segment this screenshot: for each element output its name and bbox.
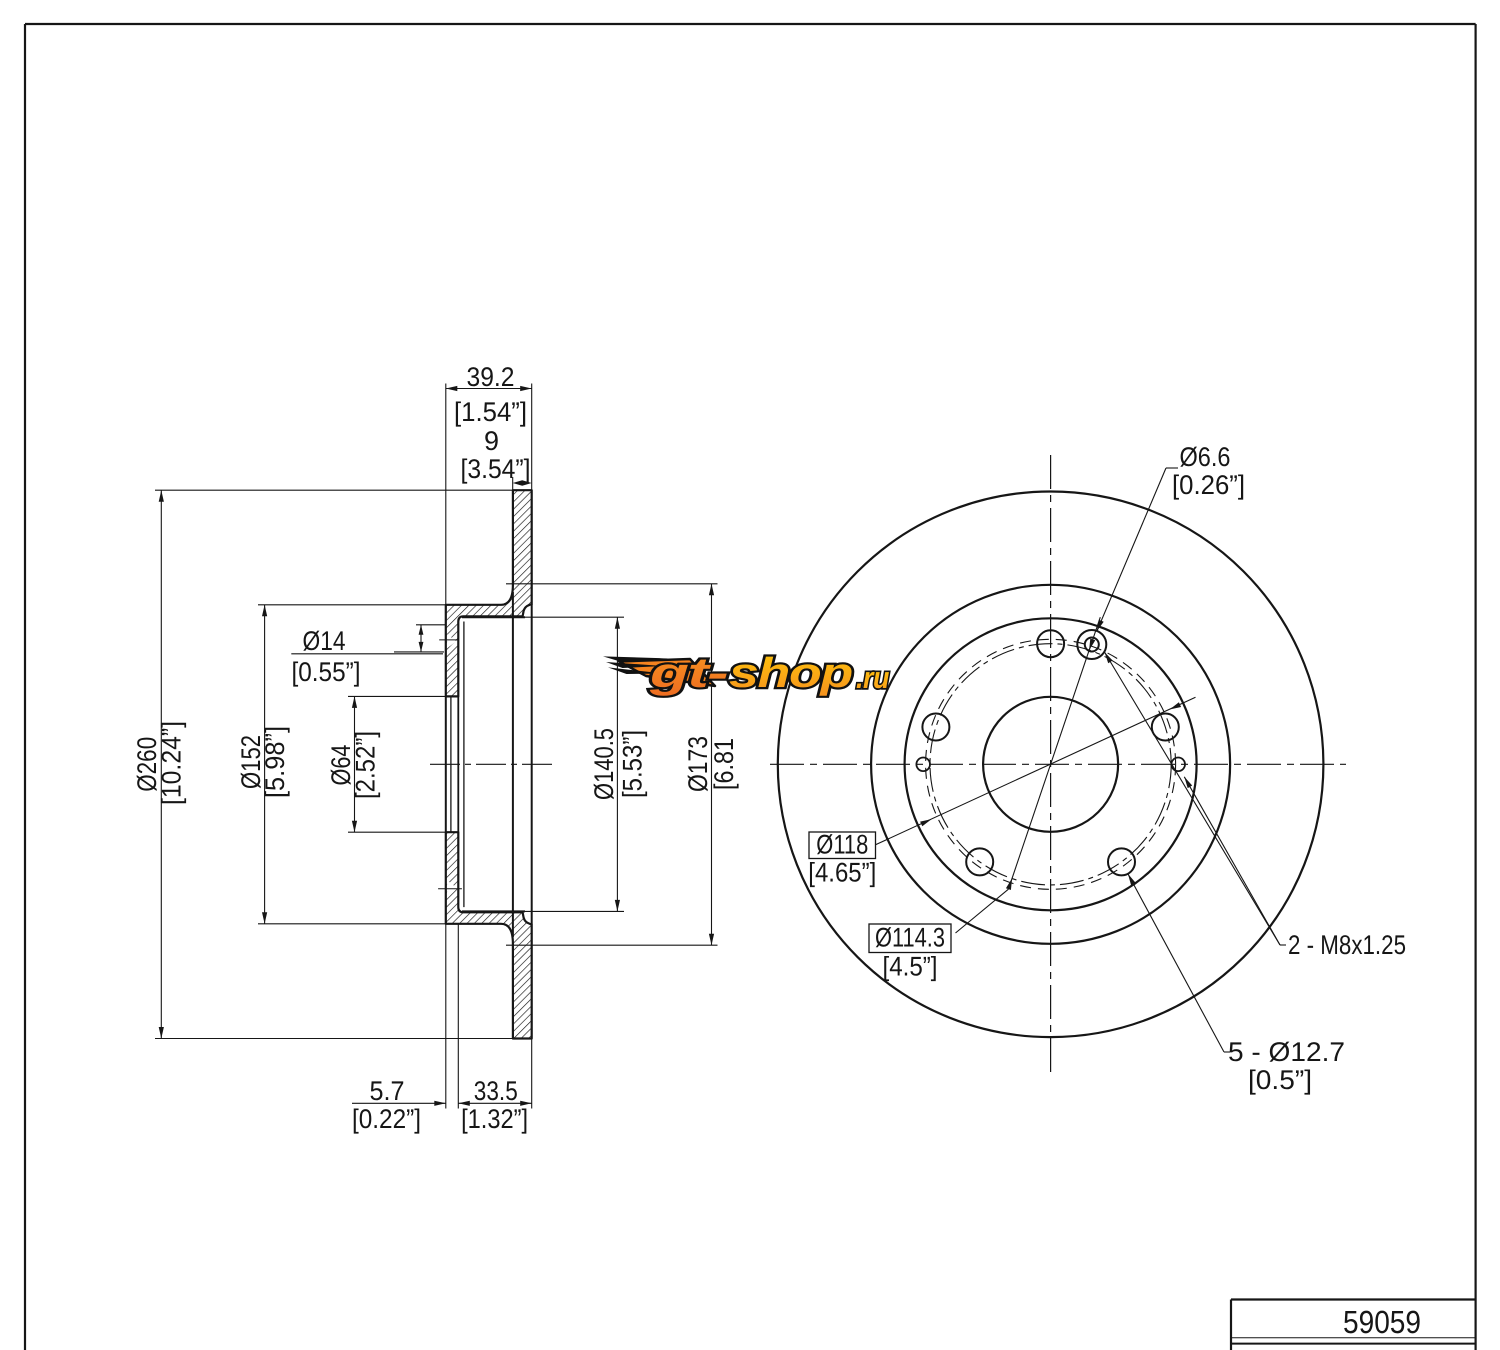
- dim 5.7: [352, 1102, 446, 1104]
- dim Ø64: [354, 696, 356, 832]
- label Ø118 box: [809, 832, 876, 859]
- svg-text:39.2: 39.2: [467, 362, 515, 392]
- svg-text:Ø14: Ø14: [303, 626, 346, 656]
- svg-text:[6.81: [6.81: [709, 738, 739, 790]
- svg-text:Ø114.3: Ø114.3: [875, 923, 945, 953]
- front view centerlines: [770, 763, 1346, 765]
- 5 bolt holes Ø12.7: [1037, 630, 1064, 657]
- dim 9: [513, 480, 532, 485]
- dim 33.5: [458, 1102, 531, 1104]
- svg-text:[5.98”]: [5.98”]: [260, 726, 290, 798]
- section: disc body top half (hatched): [446, 490, 532, 696]
- center bore Ø64: [983, 697, 1118, 832]
- bolt circle Ø114.3 dash-dot: [930, 644, 1171, 885]
- circle Ø140.5: [905, 618, 1197, 910]
- small hole left: [916, 758, 930, 772]
- svg-text:59059: 59059: [1343, 1304, 1421, 1340]
- svg-text:.ru: .ru: [856, 662, 889, 695]
- outer circle Ø260: [778, 492, 1324, 1038]
- page border frame: [25, 23, 1476, 25]
- svg-text:gt-: gt-: [648, 649, 727, 696]
- section: groove notches (white wedges) on hat face: [447, 634, 456, 648]
- svg-text:5 - Ø12.7: 5 - Ø12.7: [1228, 1037, 1345, 1067]
- section: bore + interior silhouette lines: [445, 696, 447, 832]
- svg-text:5.7: 5.7: [370, 1076, 405, 1106]
- svg-text:[1.54”]: [1.54”]: [454, 397, 527, 427]
- svg-text:[10.24”]: [10.24”]: [157, 721, 187, 805]
- circle Ø118 dashed: [926, 639, 1176, 889]
- title block: [1231, 1298, 1476, 1300]
- svg-text:[0.26”]: [0.26”]: [1172, 470, 1245, 500]
- logo speed-wing: [619, 659, 715, 686]
- section: groove tick marks: [439, 639, 458, 641]
- svg-text:Ø6.6: Ø6.6: [1180, 442, 1231, 472]
- svg-text:[0.55”]: [0.55”]: [292, 657, 361, 687]
- dim 39.2: [446, 388, 532, 390]
- dim Ø152: [264, 605, 266, 924]
- svg-text:shop: shop: [729, 649, 852, 696]
- dim Ø14: [416, 624, 446, 626]
- svg-text:[3.54”]: [3.54”]: [461, 454, 531, 484]
- section extension lines: [155, 489, 513, 491]
- svg-text:2 - M8x1.25: 2 - M8x1.25: [1288, 930, 1406, 960]
- svg-text:[4.65”]: [4.65”]: [808, 858, 876, 888]
- leader 2 - M8x1.25 (two branches): [1280, 944, 1286, 946]
- dim Ø140.5: [616, 617, 618, 911]
- svg-text:Ø118: Ø118: [816, 830, 868, 860]
- section: disc body bottom half (hatched): [446, 832, 532, 1038]
- service hole Ø6.6 (double circle): [1077, 630, 1106, 659]
- svg-text:9: 9: [484, 426, 499, 456]
- svg-text:[2.52”]: [2.52”]: [351, 731, 381, 799]
- svg-text:[4.5”]: [4.5”]: [883, 952, 938, 982]
- svg-text:33.5: 33.5: [474, 1076, 518, 1106]
- small hole right: [1171, 758, 1185, 772]
- leader 5 - Ø12.7: [1224, 1051, 1230, 1053]
- label Ø114.3 box: [869, 924, 951, 953]
- svg-text:Ø140.5: Ø140.5: [589, 728, 619, 800]
- dim line Ø118 (diagonal through center): [876, 697, 1196, 845]
- svg-text:[5.53”]: [5.53”]: [618, 730, 648, 798]
- section axis centerline: [430, 763, 554, 765]
- svg-text:[1.32”]: [1.32”]: [461, 1104, 528, 1134]
- logo text gt-shop: [648, 649, 889, 696]
- dim Ø260: [160, 490, 162, 1038]
- gt-shop.ru watermark logo: [603, 649, 889, 696]
- dim Ø173: [711, 584, 713, 945]
- leader Ø6.6: [1166, 467, 1178, 469]
- dim line Ø114.3 (diagonal through center, with leader to box): [1008, 617, 1100, 889]
- svg-text:[0.5”]: [0.5”]: [1248, 1065, 1312, 1095]
- circle Ø173: [871, 585, 1230, 944]
- svg-text:[0.22”]: [0.22”]: [352, 1104, 421, 1134]
